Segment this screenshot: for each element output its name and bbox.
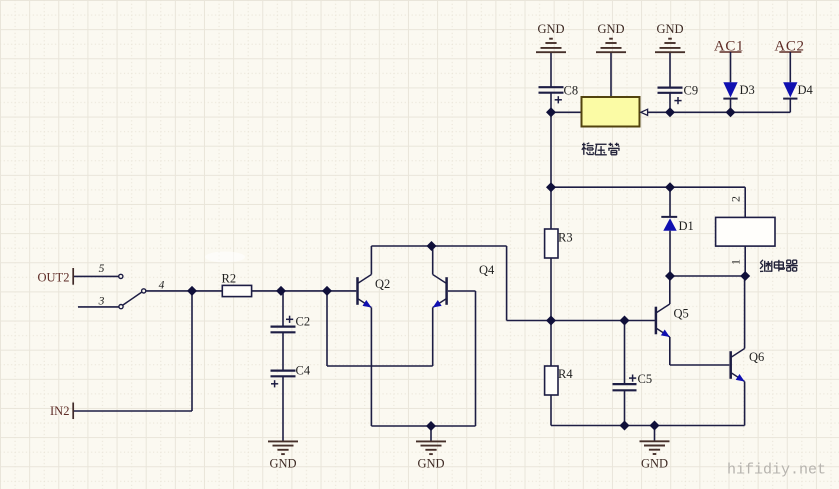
svg-text:IN2: IN2: [50, 404, 69, 418]
svg-text:Q5: Q5: [674, 307, 689, 321]
svg-text:GND: GND: [537, 22, 564, 36]
svg-text:GND: GND: [641, 456, 668, 470]
svg-text:C9: C9: [684, 84, 699, 98]
svg-text:R4: R4: [558, 367, 573, 381]
svg-text:5: 5: [99, 263, 105, 275]
svg-text:C2: C2: [296, 315, 311, 329]
svg-text:GND: GND: [269, 456, 296, 470]
svg-text:2: 2: [729, 196, 743, 202]
svg-text:4: 4: [159, 280, 165, 292]
svg-text:R3: R3: [558, 231, 573, 245]
svg-text:GND: GND: [597, 22, 624, 36]
svg-text:3: 3: [98, 296, 105, 308]
svg-text:Q4: Q4: [479, 263, 495, 277]
svg-text:D1: D1: [679, 219, 694, 233]
svg-text:D4: D4: [798, 83, 814, 97]
svg-text:GND: GND: [417, 456, 444, 470]
svg-text:C5: C5: [638, 372, 653, 386]
svg-text:Q2: Q2: [375, 277, 390, 291]
svg-text:AC2: AC2: [774, 39, 804, 55]
svg-text:AC1: AC1: [714, 39, 744, 55]
svg-text:hifidiy.net: hifidiy.net: [727, 462, 826, 479]
svg-text:C4: C4: [296, 364, 311, 378]
svg-text:GND: GND: [656, 22, 683, 36]
svg-text:R2: R2: [222, 272, 237, 286]
svg-text:1: 1: [729, 259, 743, 265]
svg-text:Q6: Q6: [749, 350, 764, 364]
svg-text:OUT2: OUT2: [38, 271, 70, 285]
svg-text:C8: C8: [564, 84, 579, 98]
svg-text:D3: D3: [740, 83, 755, 97]
